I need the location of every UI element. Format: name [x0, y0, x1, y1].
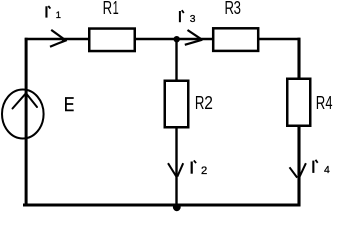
- junction node top: [174, 36, 180, 42]
- svg-text:R: R: [195, 94, 205, 114]
- label R2: [195, 94, 205, 114]
- current arrow I1: [50, 30, 67, 47]
- wire bottom: [23, 204, 301, 207]
- label I4: [312, 160, 330, 176]
- resistor R3: [213, 28, 258, 51]
- label R3: [225, 0, 235, 19]
- label I3: [179, 10, 196, 25]
- svg-text:R: R: [225, 0, 235, 19]
- label R4: [316, 94, 326, 114]
- wire R3 to top-right corner: [258, 38, 300, 41]
- resistor R4: [287, 79, 310, 126]
- svg-text:2: 2: [201, 165, 207, 177]
- label R1: [103, 0, 113, 19]
- wire node to R3: [177, 38, 213, 41]
- current arrow I3: [185, 30, 203, 45]
- current arrow I4: [290, 163, 306, 178]
- wire middle vertical bottom: [175, 127, 177, 206]
- svg-text:4: 4: [324, 165, 330, 176]
- junction node bottom: [173, 203, 181, 211]
- svg-text:1: 1: [56, 10, 61, 20]
- label I2: [191, 160, 208, 177]
- wire right vertical top: [297, 38, 300, 79]
- label E: [65, 97, 74, 111]
- wire R1 to node: [135, 38, 177, 41]
- svg-text:R: R: [316, 94, 326, 114]
- svg-text:3: 3: [234, 0, 241, 19]
- svg-text:2: 2: [204, 93, 213, 113]
- EMF source E arrow: [13, 93, 38, 108]
- resistor R2: [165, 81, 189, 128]
- current arrow I2: [168, 163, 183, 176]
- wire middle vertical top: [175, 39, 177, 81]
- wire top-left segment: [25, 38, 89, 41]
- svg-text:3: 3: [190, 14, 196, 25]
- wire left vertical: [25, 38, 28, 207]
- svg-text:R: R: [103, 0, 113, 19]
- EMF source E circle: [2, 90, 44, 139]
- resistor R1: [89, 29, 135, 52]
- wire right vertical bottom: [297, 126, 300, 206]
- svg-text:1: 1: [113, 0, 119, 19]
- svg-text:4: 4: [325, 94, 332, 114]
- label I1: [45, 6, 60, 20]
